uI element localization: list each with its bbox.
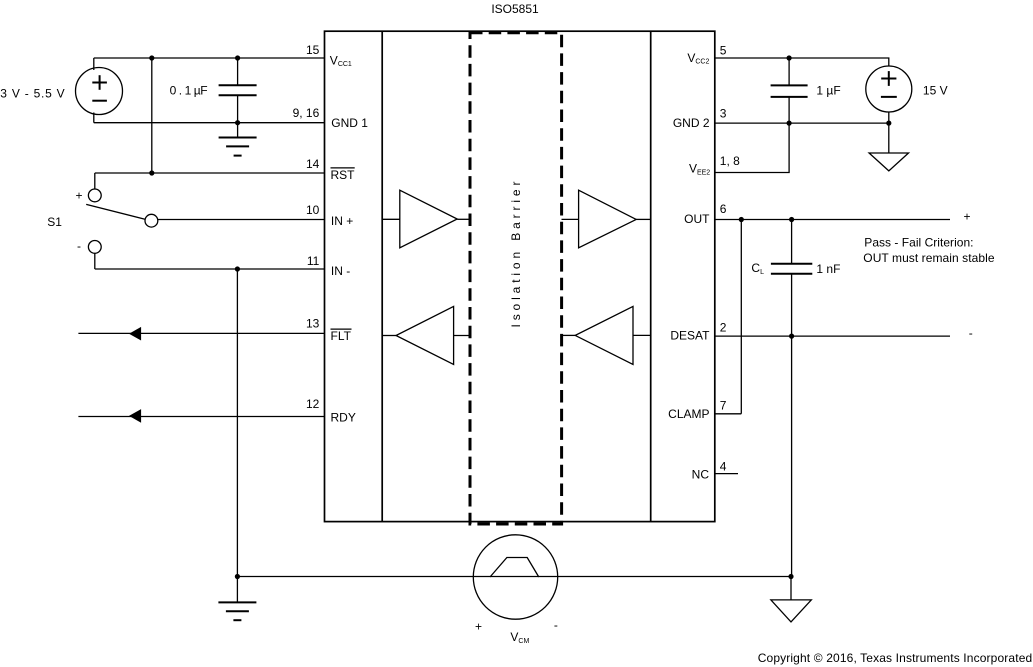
wire IN+ net (pin 10) xyxy=(158,219,325,221)
voltage source V2 15V xyxy=(866,66,912,112)
junction IN-/vertical xyxy=(235,266,240,271)
wire VCC2 net (pin 5) xyxy=(715,58,889,67)
voltage source V2 15V leads xyxy=(888,112,890,153)
buffer A3 output wire xyxy=(636,218,651,220)
capacitor C2 1uF bottom lead xyxy=(788,97,790,123)
svg-text:5: 5 xyxy=(720,44,727,58)
svg-text:-: - xyxy=(969,326,973,340)
arrow FLT output xyxy=(129,327,141,341)
svg-text:GND 1: GND 1 xyxy=(331,116,368,130)
ground (bottom left rail) xyxy=(236,577,238,603)
wire VEE2 net (pins 1,8) xyxy=(715,123,789,172)
svg-text:15: 15 xyxy=(306,43,320,57)
junction GND1/C1 xyxy=(235,120,240,125)
junction GND2/15V source xyxy=(886,121,891,126)
svg-text:2: 2 xyxy=(720,320,727,334)
junction VCC2/C2 xyxy=(787,55,792,60)
svg-text:RST: RST xyxy=(331,168,356,182)
svg-text:S1: S1 xyxy=(47,215,62,229)
svg-text:DESAT: DESAT xyxy=(670,329,710,343)
buffer A4 output wire xyxy=(562,334,576,336)
capacitor CL bottom lead / vertical to bottom rail xyxy=(791,274,793,577)
svg-text:4: 4 xyxy=(720,460,727,474)
buffer A2 input wire xyxy=(454,335,470,337)
wire OUT to CLAMP vertical xyxy=(740,220,742,414)
buffer A3 input wire xyxy=(562,218,579,220)
ground (right, triangle below 15V source) xyxy=(869,153,908,171)
junction RST/tie xyxy=(149,170,154,175)
svg-text:CLAMP: CLAMP xyxy=(668,407,709,421)
wire IN- to bottom rail vertical xyxy=(236,269,238,577)
svg-text:12: 12 xyxy=(306,397,320,411)
svg-text:FLT: FLT xyxy=(331,329,352,343)
switch S1 - terminal xyxy=(88,241,101,254)
svg-text:3: 3 xyxy=(720,106,727,120)
junction VCC1/C1 xyxy=(235,55,240,60)
buffer A3 (right top, points right) xyxy=(579,190,637,248)
wire GND1 net (pins 9,16) xyxy=(94,122,325,124)
buffer A2 output wire xyxy=(382,335,396,337)
junction bottom rail right xyxy=(788,574,793,579)
buffer A1 output wire xyxy=(457,218,470,220)
wire VCC1-RST tie xyxy=(151,58,153,173)
svg-text:1 nF: 1 nF xyxy=(816,262,840,276)
svg-text:-: - xyxy=(554,618,558,632)
svg-text:0 . 1 µF: 0 . 1 µF xyxy=(170,84,208,98)
wire NC stub (pin 4) xyxy=(715,473,738,475)
switch S1 arm xyxy=(86,204,145,219)
arrow RDY output xyxy=(129,409,141,423)
svg-text:Pass - Fail Criterion:: Pass - Fail Criterion: xyxy=(864,235,973,249)
IC U1 ISO5851 outline xyxy=(325,31,715,521)
buffer A4 input wire xyxy=(633,334,651,336)
wire FLT net (pin 13) xyxy=(78,332,324,334)
svg-text:IN -: IN - xyxy=(331,264,350,278)
svg-text:11: 11 xyxy=(307,254,320,268)
svg-text:10: 10 xyxy=(306,203,320,217)
wire OUT net (pin 6) xyxy=(715,219,950,221)
junction VCC1/tie xyxy=(149,55,154,60)
switch S1 pole xyxy=(145,214,158,227)
wire VCC1 net (pin 15) xyxy=(94,57,325,59)
wire GND2 net (pin 3) xyxy=(715,122,889,124)
junction OUT/CLAMP xyxy=(739,217,744,222)
IC U1 right inner partition xyxy=(650,31,652,521)
switch S1 + terminal lead xyxy=(94,173,96,189)
buffer A1 input wire xyxy=(382,218,400,220)
buffer A4 (right bottom, points left) xyxy=(575,306,633,364)
svg-text:IN +: IN + xyxy=(331,214,353,228)
svg-text:6: 6 xyxy=(720,202,727,216)
junction bottom rail left xyxy=(235,574,240,579)
svg-text:+: + xyxy=(75,189,82,203)
wire source V1 bottom lead xyxy=(93,113,95,123)
VCM trapezoid waveform xyxy=(490,558,539,578)
source VCM common-mode xyxy=(473,535,557,619)
junction GND2/C2/VEE2 xyxy=(787,121,792,126)
svg-text:1 µF: 1 µF xyxy=(816,84,840,98)
junction OUT/CL xyxy=(789,217,794,222)
svg-text:+: + xyxy=(475,619,482,633)
capacitor C2 1uF top lead xyxy=(788,58,790,85)
svg-text:-: - xyxy=(77,239,81,253)
capacitor CL top lead xyxy=(791,220,793,264)
wire RST net (pin 14) xyxy=(95,172,325,174)
svg-text:15 V: 15 V xyxy=(923,83,948,97)
wire bottom rail xyxy=(237,576,791,578)
capacitor C1 0.1uF leads xyxy=(237,58,239,85)
svg-text:Isolation Barrier: Isolation Barrier xyxy=(509,182,523,328)
switch S1 + terminal xyxy=(88,189,101,202)
wire RDY net (pin 12) xyxy=(78,416,324,418)
svg-text:13: 13 xyxy=(306,317,320,331)
svg-text:Copyright © 2016, Texas Instru: Copyright © 2016, Texas Instruments Inco… xyxy=(758,651,1032,665)
svg-text:RDY: RDY xyxy=(331,411,356,425)
wire IN- net (pin 11) xyxy=(95,268,325,270)
wire source V1 top lead xyxy=(93,58,95,70)
buffer A2 (left bottom, points left) xyxy=(396,306,454,364)
wire DESAT net (pin 2) xyxy=(715,335,950,337)
svg-text:NC: NC xyxy=(692,467,710,481)
svg-text:OUT: OUT xyxy=(684,212,710,226)
svg-text:3 V - 5.5 V: 3 V - 5.5 V xyxy=(0,86,64,100)
svg-text:ISO5851: ISO5851 xyxy=(491,2,539,16)
IC U1 left inner partition xyxy=(381,31,383,521)
svg-text:1, 8: 1, 8 xyxy=(720,154,740,168)
buffer A1 (left top, points right) xyxy=(400,190,457,248)
ground GND1 (below C1) xyxy=(237,123,239,138)
ground (bottom right, triangle) xyxy=(790,577,792,600)
svg-text:14: 14 xyxy=(306,157,320,171)
junction DESAT/CL xyxy=(789,334,794,339)
voltage source V1 3V-5.5V xyxy=(76,68,123,115)
svg-text:7: 7 xyxy=(720,398,727,412)
isolation barrier dashed box xyxy=(470,33,562,524)
svg-text:9, 16: 9, 16 xyxy=(293,106,320,120)
capacitor C2 1uF plates xyxy=(771,85,808,97)
capacitor CL plates xyxy=(771,264,812,274)
svg-text:+: + xyxy=(964,209,971,223)
wire CLAMP net (pin 7) xyxy=(715,413,742,415)
svg-text:OUT must remain stable: OUT must remain stable xyxy=(863,251,995,265)
switch S1 - terminal lead xyxy=(94,253,96,269)
capacitor C1 0.1uF plates xyxy=(219,85,257,95)
svg-text:GND 2: GND 2 xyxy=(673,116,710,130)
